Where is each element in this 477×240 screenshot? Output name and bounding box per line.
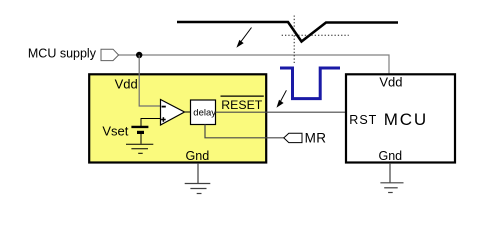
- svg-text:Vdd: Vdd: [379, 74, 402, 89]
- svg-text:RST: RST: [349, 113, 377, 127]
- svg-text:Vdd: Vdd: [115, 76, 138, 91]
- svg-text:RESET: RESET: [221, 98, 262, 112]
- svg-text:MCU supply: MCU supply: [28, 47, 97, 61]
- svg-text:Gnd: Gnd: [186, 149, 210, 163]
- svg-text:Gnd: Gnd: [379, 149, 403, 163]
- svg-text:delay: delay: [193, 107, 216, 118]
- svg-text:MCU: MCU: [384, 110, 428, 129]
- svg-text:MR: MR: [305, 131, 327, 146]
- svg-text:Vset: Vset: [102, 123, 128, 138]
